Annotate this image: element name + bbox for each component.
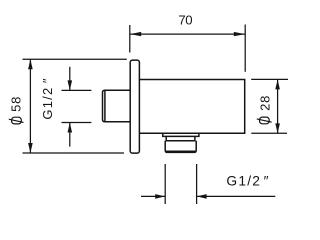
svg-text:G1/2″: G1/2″ <box>226 173 269 188</box>
G1/2 left arrow up <box>68 123 73 133</box>
70 extension line right <box>244 25 246 72</box>
70 arrow left <box>130 32 141 36</box>
svg-text:70: 70 <box>178 13 192 28</box>
G1/2 left extension line top <box>62 89 92 91</box>
body (square elbow block) <box>139 80 244 134</box>
70 arrow right <box>234 32 245 36</box>
ø58 arrow down <box>28 143 33 153</box>
G1/2 left dimension line upper tail <box>69 67 71 91</box>
diameter symbol of ø58 <box>9 117 24 124</box>
flange (wall escutcheon, side view) <box>130 60 139 153</box>
outlet thread body <box>165 141 196 153</box>
outlet thread chamfer line <box>166 150 196 152</box>
70 dimension line <box>130 33 245 35</box>
G1/2 left extension line bottom <box>62 122 92 124</box>
G1/2 bottom extension line left <box>164 164 166 204</box>
ø28 extension line top <box>251 78 288 80</box>
label ø58 <box>8 96 23 112</box>
ø58 dimension line <box>29 59 31 153</box>
outlet collar <box>163 133 199 136</box>
ø58 extension line bottom <box>23 152 125 154</box>
G1/2 left arrow down <box>68 80 73 90</box>
label ø28 <box>258 95 273 111</box>
70 extension line left <box>129 25 131 53</box>
svg-text:G1/2″: G1/2″ <box>40 77 55 119</box>
wall inlet stub G1/2 <box>103 90 130 122</box>
diameter symbol of ø28 <box>257 117 272 124</box>
G1/2 left dimension line lower tail <box>69 123 71 147</box>
G1/2 bottom extension line right <box>196 164 198 204</box>
G1/2 bottom arrow right-pointing <box>155 194 165 199</box>
svg-text:28: 28 <box>258 95 273 111</box>
label G1/2" left <box>40 77 55 119</box>
ø28 arrow up <box>275 80 280 90</box>
ø28 dimension line <box>277 79 279 133</box>
G1/2 bottom dimension line left segment <box>141 195 165 197</box>
svg-text:58: 58 <box>8 96 23 112</box>
ø28 arrow down <box>275 123 280 133</box>
stub chamfer line <box>104 91 106 122</box>
outlet neck <box>166 136 195 140</box>
ø58 extension line top <box>23 58 127 60</box>
G1/2 bottom dimension line right segment <box>197 195 276 197</box>
G1/2 bottom arrow left-pointing <box>197 194 207 199</box>
ø58 arrow up <box>28 59 33 69</box>
ø28 extension line bottom <box>251 132 287 134</box>
